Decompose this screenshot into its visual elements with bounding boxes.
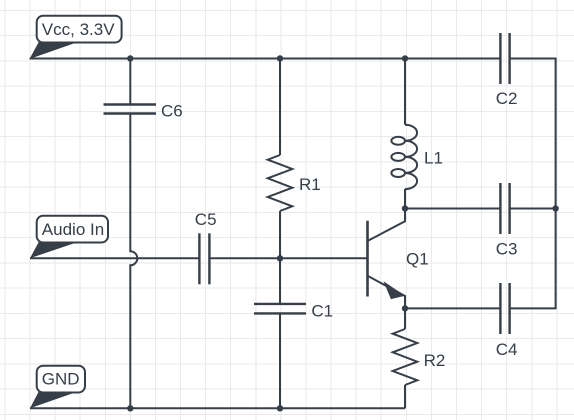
node bottom-left junction <box>127 405 133 411</box>
node emitter junction <box>402 305 408 311</box>
wire top rail right segment after C2 <box>510 58 557 60</box>
svg-text:Q1: Q1 <box>406 250 429 269</box>
wire bottom rail <box>30 407 405 409</box>
wire L1 top lead <box>404 59 406 125</box>
inductor L1 <box>391 125 417 189</box>
wire C3 right segment <box>510 208 556 210</box>
resistor R1 <box>268 155 293 211</box>
svg-text:C5: C5 <box>195 210 217 229</box>
svg-text:C2: C2 <box>496 89 518 108</box>
capacitor C1 <box>254 304 306 314</box>
wire C3 left segment (collector to C3) <box>405 208 500 210</box>
node junction top L1 <box>402 55 408 61</box>
resistor R2 <box>393 329 418 385</box>
wire column2 top rail to R1 <box>279 59 281 156</box>
node collector junction <box>402 205 408 211</box>
wire C1 to bottom rail <box>279 313 281 408</box>
wire left column upper (top rail to C6) <box>129 59 131 105</box>
capacitor C5 <box>199 233 209 284</box>
capacitor C4 <box>500 283 509 334</box>
callout Vcc box <box>37 16 122 43</box>
wire left column middle with hop over audio line <box>130 114 137 409</box>
capacitor C3 <box>500 183 509 234</box>
svg-text:C3: C3 <box>496 239 518 258</box>
node right rail C3 junction <box>552 205 558 211</box>
wire right rail vertical <box>510 59 556 309</box>
wire audio node to C1 <box>279 258 281 304</box>
wire R2 to bottom rail <box>404 385 406 408</box>
wire audio-in right segment C5 to base <box>209 257 367 259</box>
capacitor C6 <box>104 105 157 114</box>
callout GND tail <box>30 391 75 408</box>
svg-text:C6: C6 <box>161 101 183 120</box>
svg-text:L1: L1 <box>424 148 443 167</box>
wire C4 left segment (emitter to C4) <box>405 307 500 309</box>
node bottom col2 junction <box>277 405 283 411</box>
svg-text:R2: R2 <box>424 351 446 370</box>
wire audio-in left segment to C5 <box>30 257 199 259</box>
wire R1 to audio node <box>279 211 281 258</box>
svg-text:GND: GND <box>42 370 80 389</box>
callout Vcc tail <box>30 42 76 60</box>
transistor Q1 base bar <box>366 221 369 297</box>
wire L1 bottom lead <box>404 189 406 209</box>
transistor Q1 emitter <box>368 276 406 309</box>
transistor Q1 emitter arrowhead <box>385 283 404 299</box>
svg-text:R1: R1 <box>299 175 321 194</box>
svg-text:C4: C4 <box>496 340 518 359</box>
svg-text:C1: C1 <box>311 301 333 320</box>
capacitor C2 <box>500 33 509 84</box>
transistor Q1 collector <box>368 209 406 242</box>
wire top rail left segment <box>30 58 501 60</box>
node junction top-left <box>127 55 133 61</box>
callout Audio In box <box>37 216 108 243</box>
node audio junction <box>277 255 283 261</box>
svg-text:Audio In: Audio In <box>42 220 104 239</box>
callout Audio In tail <box>30 242 75 259</box>
node junction top col2 <box>277 55 283 61</box>
callout GND box <box>37 366 85 393</box>
wire emitter node to R2 <box>404 308 406 329</box>
svg-text:Vcc, 3.3V: Vcc, 3.3V <box>42 20 115 39</box>
